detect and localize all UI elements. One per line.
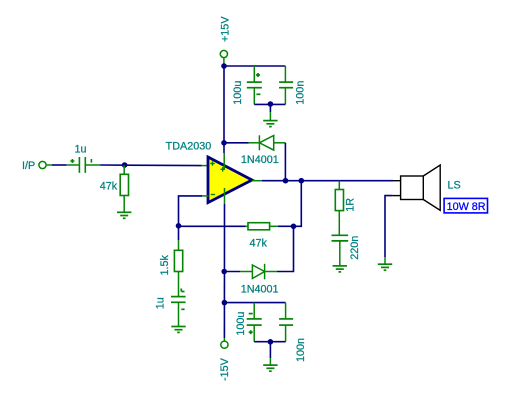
node +15V terminal [220, 50, 227, 57]
op-amp U1 pin V+ [223, 153, 225, 170]
wire V+ rail down [223, 66, 225, 153]
svg-text:100n: 100n [295, 338, 307, 362]
node junction D2 tap [221, 269, 227, 275]
wire R4 to C7 [338, 211, 340, 236]
svg-text:100n: 100n [295, 81, 307, 105]
capacitor C2 100u plates [247, 73, 262, 94]
wire bottom decoupling rail [224, 302, 285, 304]
node junction feedback/R3 [176, 223, 182, 229]
wire inverting input to feedback node [202, 195, 209, 197]
ground top caps [263, 121, 277, 127]
node junction output/D1 [283, 178, 289, 184]
wire R3 to C4 [178, 272, 180, 297]
node junction bottom caps tap [222, 300, 228, 306]
op-amp U1 plus mark supply [221, 167, 225, 171]
svg-text:47k: 47k [250, 237, 268, 249]
resistor R1 47k input [123, 165, 125, 174]
capacitor C1 1u input electrolytic [70, 157, 91, 173]
capacitor C6 100n lead [285, 303, 287, 319]
node junction bottom caps ground [268, 339, 274, 345]
node junction output/feedback [299, 178, 305, 184]
svg-text:1u: 1u [154, 297, 166, 309]
resistor R4 1R [338, 181, 340, 190]
op-amp U1 TDA2030 [208, 157, 252, 203]
wire to -15V terminal [223, 338, 225, 341]
node junction diode D1 tap [221, 140, 227, 146]
wire D1 to output node [284, 143, 286, 181]
capacitor C3 100n plates [279, 82, 293, 88]
speaker rating box 10W 8R [444, 198, 487, 213]
ground bottom caps [263, 365, 277, 371]
capacitor C6 100n plates [279, 319, 293, 325]
op-amp U1 output pin [252, 180, 262, 182]
node junction top caps ground [268, 101, 274, 107]
ground under C7 [333, 266, 347, 272]
wire feedback up to output [294, 181, 302, 227]
svg-text:1R: 1R [345, 198, 357, 212]
wire speaker return [385, 196, 393, 257]
wire bottom of bottom caps [254, 341, 285, 343]
ground under R1 [117, 212, 131, 218]
capacitor C2 100u lead [253, 66, 255, 82]
capacitor C7 220n [332, 235, 349, 241]
op-amp U1 pin V- [224, 188, 226, 204]
diode D1 1N4001 top [224, 142, 249, 144]
capacitor C4 1u electrolytic [171, 289, 186, 310]
wire feedback row [179, 225, 246, 227]
svg-text:1.5k: 1.5k [159, 254, 171, 275]
svg-text:I/P: I/P [22, 160, 35, 172]
op-amp U1 minus mark inverting [211, 194, 215, 196]
wire input terminal to C1 [47, 164, 52, 166]
capacitor C5 100u lead [253, 303, 255, 319]
svg-text:100u: 100u [235, 312, 247, 336]
svg-text:47k: 47k [100, 180, 118, 192]
ground speaker [378, 264, 392, 270]
wire D2 to feedback node [277, 226, 294, 271]
svg-text:220n: 220n [349, 236, 361, 260]
op-amp U1 plus mark noninverting [210, 161, 214, 165]
wire to top ground [269, 104, 271, 112]
svg-text:LS: LS [448, 179, 461, 191]
capacitor C3 100n lead [284, 66, 286, 82]
wire to bottom ground [269, 342, 271, 358]
wire C7 to ground [339, 241, 341, 266]
resistor R2 47k feedback [248, 223, 270, 230]
wire output node [262, 180, 393, 182]
node junction top rail [221, 63, 227, 69]
svg-text:1u: 1u [75, 143, 87, 155]
svg-text:+15V: +15V [220, 16, 232, 42]
resistor R3 1.5k [178, 226, 180, 240]
svg-text:100u: 100u [232, 81, 244, 105]
ground under C4 [171, 327, 185, 333]
node junction R2/output leg [291, 224, 297, 230]
speaker LS [393, 165, 441, 210]
svg-text:TDA2030: TDA2030 [166, 141, 212, 153]
wire C1 to input node [86, 164, 100, 166]
diode D2 1N4001 bottom [224, 271, 240, 273]
wire +15V to rail [223, 58, 225, 66]
wire bottom of top caps [254, 103, 285, 105]
node I/P terminal [39, 161, 46, 168]
capacitor C5 100u plates [247, 314, 262, 335]
svg-text:1N4001: 1N4001 [241, 154, 279, 166]
node junction input/R1 [122, 162, 128, 168]
wire top decoupling rail [224, 65, 285, 67]
wire C4 to ground [178, 302, 180, 326]
svg-text:1N4001: 1N4001 [241, 284, 279, 296]
svg-text:10W 8R: 10W 8R [447, 201, 486, 213]
svg-text:-15V: -15V [219, 357, 231, 381]
wire V- rail [223, 204, 225, 338]
node -15V terminal [221, 341, 228, 348]
